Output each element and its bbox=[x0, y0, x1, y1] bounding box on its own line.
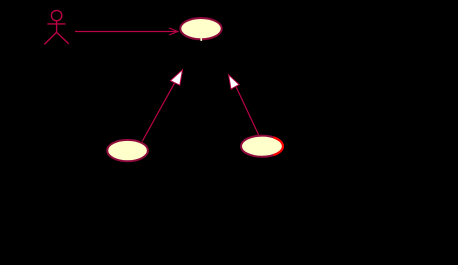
use case U3 red highlight arc (right edge) bbox=[273, 137, 283, 155]
generalization wire U2 to U1 bbox=[142, 83, 174, 141]
actor A1 arms bbox=[47, 23, 65, 25]
generalization wire U3 to U1 bbox=[236, 87, 258, 135]
actor A1 head bbox=[51, 10, 61, 20]
generalization triangle arrowhead (left) bbox=[170, 70, 182, 85]
generalization triangle arrowhead (right) bbox=[229, 75, 240, 89]
actor A1 left leg bbox=[44, 32, 56, 44]
use case U1 caret tick bbox=[200, 37, 202, 41]
use case U3 (bottom-right ellipse) bbox=[241, 136, 283, 157]
association open arrowhead bbox=[169, 28, 178, 35]
association wire actor to top use case bbox=[75, 31, 178, 33]
actor A1 body bbox=[56, 21, 58, 32]
use case U2 (bottom-left ellipse) bbox=[107, 140, 148, 161]
actor A1 right leg bbox=[57, 32, 69, 44]
use case U1 (top ellipse) bbox=[180, 18, 221, 39]
